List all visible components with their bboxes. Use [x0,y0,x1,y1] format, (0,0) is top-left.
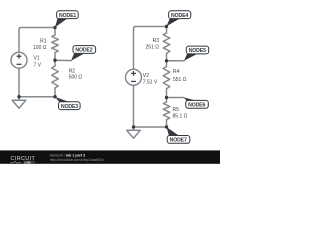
svg-text:500 Ω: 500 Ω [69,74,83,80]
node NODE3 box [59,102,81,110]
junction dots [17,25,168,129]
svg-text:LAB: LAB [25,160,32,164]
node NODE5 box [186,46,208,54]
node dot ground left [17,95,20,98]
node dot right mid2 [165,96,168,99]
wire node6 to R5 [166,98,168,103]
wire node5 to R4 [166,61,168,67]
svg-text:NODE3: NODE3 [61,104,78,110]
ground left triangle [12,100,26,108]
svg-text:7.51 V: 7.51 V [143,80,158,86]
resistor R1 [52,35,59,53]
node NODE2 tail [71,54,84,61]
svg-text:NODE5: NODE5 [189,48,206,54]
svg-text:251 Ω: 251 Ω [146,45,160,51]
node dot left top [53,26,56,29]
node NODE7 tail [167,127,180,136]
svg-text:V2: V2 [143,73,149,79]
wire node2 stub [55,59,71,61]
footer logo wave [11,161,22,164]
svg-text:551 Ω: 551 Ω [173,77,187,83]
svg-text:R1: R1 [40,39,47,45]
V1 plus sign [17,54,22,59]
node NODE2 box [73,46,96,54]
node NODE1 box [57,11,79,19]
resistor R5 [163,102,170,120]
wire V1 bottom [18,68,20,100]
node NODE1 tail [55,19,67,28]
node dot right top [165,25,168,28]
node NODE4 box [169,11,191,19]
svg-text:NODE6: NODE6 [188,103,205,109]
node NODE7 box [167,136,190,144]
svg-text:V1: V1 [34,56,40,62]
svg-text:R4: R4 [173,69,180,75]
node NODE4 tail [167,19,180,26]
node NODE6 box [186,100,209,108]
wire R3 top stub [166,27,168,34]
component labels [33,38,188,120]
voltage source V1 circle [11,52,27,68]
resistor R3 [163,33,170,54]
wire left top bus [19,28,55,53]
svg-text:R3: R3 [153,38,160,44]
svg-text:AldrianA / lab 1 part 3: AldrianA / lab 1 part 3 [50,154,85,158]
svg-text:R5: R5 [173,107,180,113]
footer logo LAB [24,161,36,164]
svg-text:100 Ω: 100 Ω [33,45,47,51]
wire node to R2 [54,60,56,66]
node dot left mid [53,59,56,62]
node dot right mid1 [165,59,168,62]
node dot right bottom [165,125,168,128]
node NODE5 tail [184,54,197,61]
wire R1 to node [54,53,56,61]
svg-text:NODE7: NODE7 [170,138,187,144]
svg-text:7 V: 7 V [34,63,42,69]
wire R2 bottom to bus [19,88,55,97]
svg-text:NODE1: NODE1 [59,13,76,19]
node flag boxes [57,11,209,144]
wire R3 to node5 [166,54,168,61]
node dot left bottom [53,95,56,98]
resistor R2 [52,66,59,88]
wire node5 stub [167,60,185,62]
wire R1 top stub [54,28,56,36]
svg-text:http://circuitlab.com/c/ky1csw: http://circuitlab.com/c/ky1csw662v [50,158,105,162]
wire right top bus [134,27,167,70]
wire node6 stub [167,97,185,99]
node NODE3 tail [55,97,70,102]
V2 plus sign [131,71,136,76]
resistor R4 [163,67,170,89]
svg-text:85.1 Ω: 85.1 Ω [173,114,188,120]
ground right triangle [127,130,141,138]
V2 minus sign [131,80,136,82]
flag tails [55,19,197,136]
wire R5 bottom to bus [134,120,167,127]
footer bar [0,150,220,163]
wire R4 to node6 [166,89,168,98]
V1 minus sign [17,63,22,65]
node NODE6 tail [184,98,197,101]
svg-text:NODE4: NODE4 [171,13,188,19]
wire V2 bottom [133,85,135,130]
voltage source V2 circle [126,69,142,85]
svg-text:NODE2: NODE2 [75,48,92,54]
node dot ground right [132,125,135,128]
